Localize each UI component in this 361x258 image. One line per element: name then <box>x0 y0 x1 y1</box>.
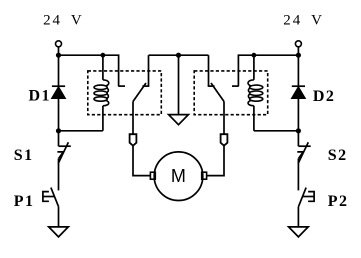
svg-text:24: 24 <box>43 13 62 29</box>
svg-text:S1: S1 <box>14 147 34 164</box>
wire terminal-right to node A2 <box>297 47 299 55</box>
svg-text:P2: P2 <box>328 193 349 210</box>
wire terminal-left to node A <box>58 47 60 55</box>
svg-text:V: V <box>311 13 324 29</box>
wire coil K2 bottom <box>253 106 255 131</box>
wire node B2 to coil K2 <box>253 55 255 80</box>
relay coil K1 <box>94 80 109 106</box>
node B <box>101 53 106 58</box>
diode D1 <box>52 87 65 98</box>
supply terminal right <box>295 41 301 47</box>
diode D2 <box>292 87 305 98</box>
node C2 <box>296 128 301 133</box>
svg-text:D1: D1 <box>29 88 51 105</box>
diode D1 cathode bar <box>52 85 65 87</box>
node D center <box>176 53 181 58</box>
wire pin left to motor <box>133 146 150 176</box>
wire S1 to P1 <box>58 158 60 190</box>
relay K2 NO contact foot <box>232 85 239 87</box>
wire P2 to ground right <box>297 207 299 227</box>
node A <box>56 53 61 58</box>
wire node A2 to D2 cathode <box>297 55 299 86</box>
node C <box>56 128 61 133</box>
wire node C2 to switch S2 <box>297 131 299 146</box>
wire node C to switch S1 <box>58 131 60 146</box>
wire node B to relay K1 NO contact <box>103 55 119 86</box>
ground right <box>289 227 309 237</box>
wire node A2 to node B2 <box>254 54 299 56</box>
relay K1 NO contact foot <box>118 85 125 87</box>
relay K1 NC contact foot <box>142 85 149 87</box>
wire coil K2 to node C2 <box>254 130 299 132</box>
wire node A to node B <box>59 54 103 56</box>
motor terminal right <box>202 172 207 179</box>
svg-text:S2: S2 <box>328 147 348 164</box>
svg-text:D2: D2 <box>313 88 335 105</box>
connector pin right <box>221 134 228 146</box>
ground center <box>169 115 189 125</box>
relay K2 NC contact foot <box>208 85 215 87</box>
connector pin left <box>130 134 137 146</box>
node B2 <box>252 53 257 58</box>
switch S2 <box>297 142 310 163</box>
svg-text:24: 24 <box>283 13 302 29</box>
relay K2 box <box>194 71 268 115</box>
relay K2 NC contact stub <box>208 55 210 86</box>
wire D2 anode to node C2 <box>297 98 299 131</box>
supply terminal left <box>56 41 62 47</box>
svg-text:P1: P1 <box>14 193 35 210</box>
motor M1 <box>154 152 203 201</box>
wire P1 to ground left <box>58 207 60 227</box>
wire coil K1 bottom <box>102 106 104 131</box>
center rail wire <box>149 54 209 56</box>
relay K1 armature <box>133 83 146 102</box>
relay K1 box <box>88 71 162 115</box>
wire relay K1 common <box>132 102 134 135</box>
wire relay K2 common <box>223 102 225 135</box>
ground left <box>49 227 69 237</box>
wire node D to center ground <box>178 55 180 114</box>
wire node B2 to relay K2 NO contact <box>238 55 254 86</box>
relay K1 NC contact stub <box>148 55 150 86</box>
wire S2 to P2 <box>297 158 299 190</box>
svg-text:M: M <box>171 166 186 186</box>
relay coil K2 <box>248 80 263 106</box>
pushbutton P1 <box>43 188 59 207</box>
wire pin right to motor <box>207 146 224 176</box>
switch S1 <box>57 142 70 163</box>
wire node B to coil K1 <box>102 55 104 80</box>
diode D2 cathode bar <box>292 85 305 87</box>
motor terminal left <box>150 172 155 179</box>
wire D1 anode to node C <box>58 98 60 131</box>
relay K2 armature <box>211 83 224 102</box>
pushbutton P2 <box>299 188 315 207</box>
wire node A to D1 cathode <box>58 55 60 86</box>
node A2 <box>296 53 301 58</box>
wire coil K1 to node C <box>59 130 103 132</box>
svg-text:V: V <box>71 13 84 29</box>
